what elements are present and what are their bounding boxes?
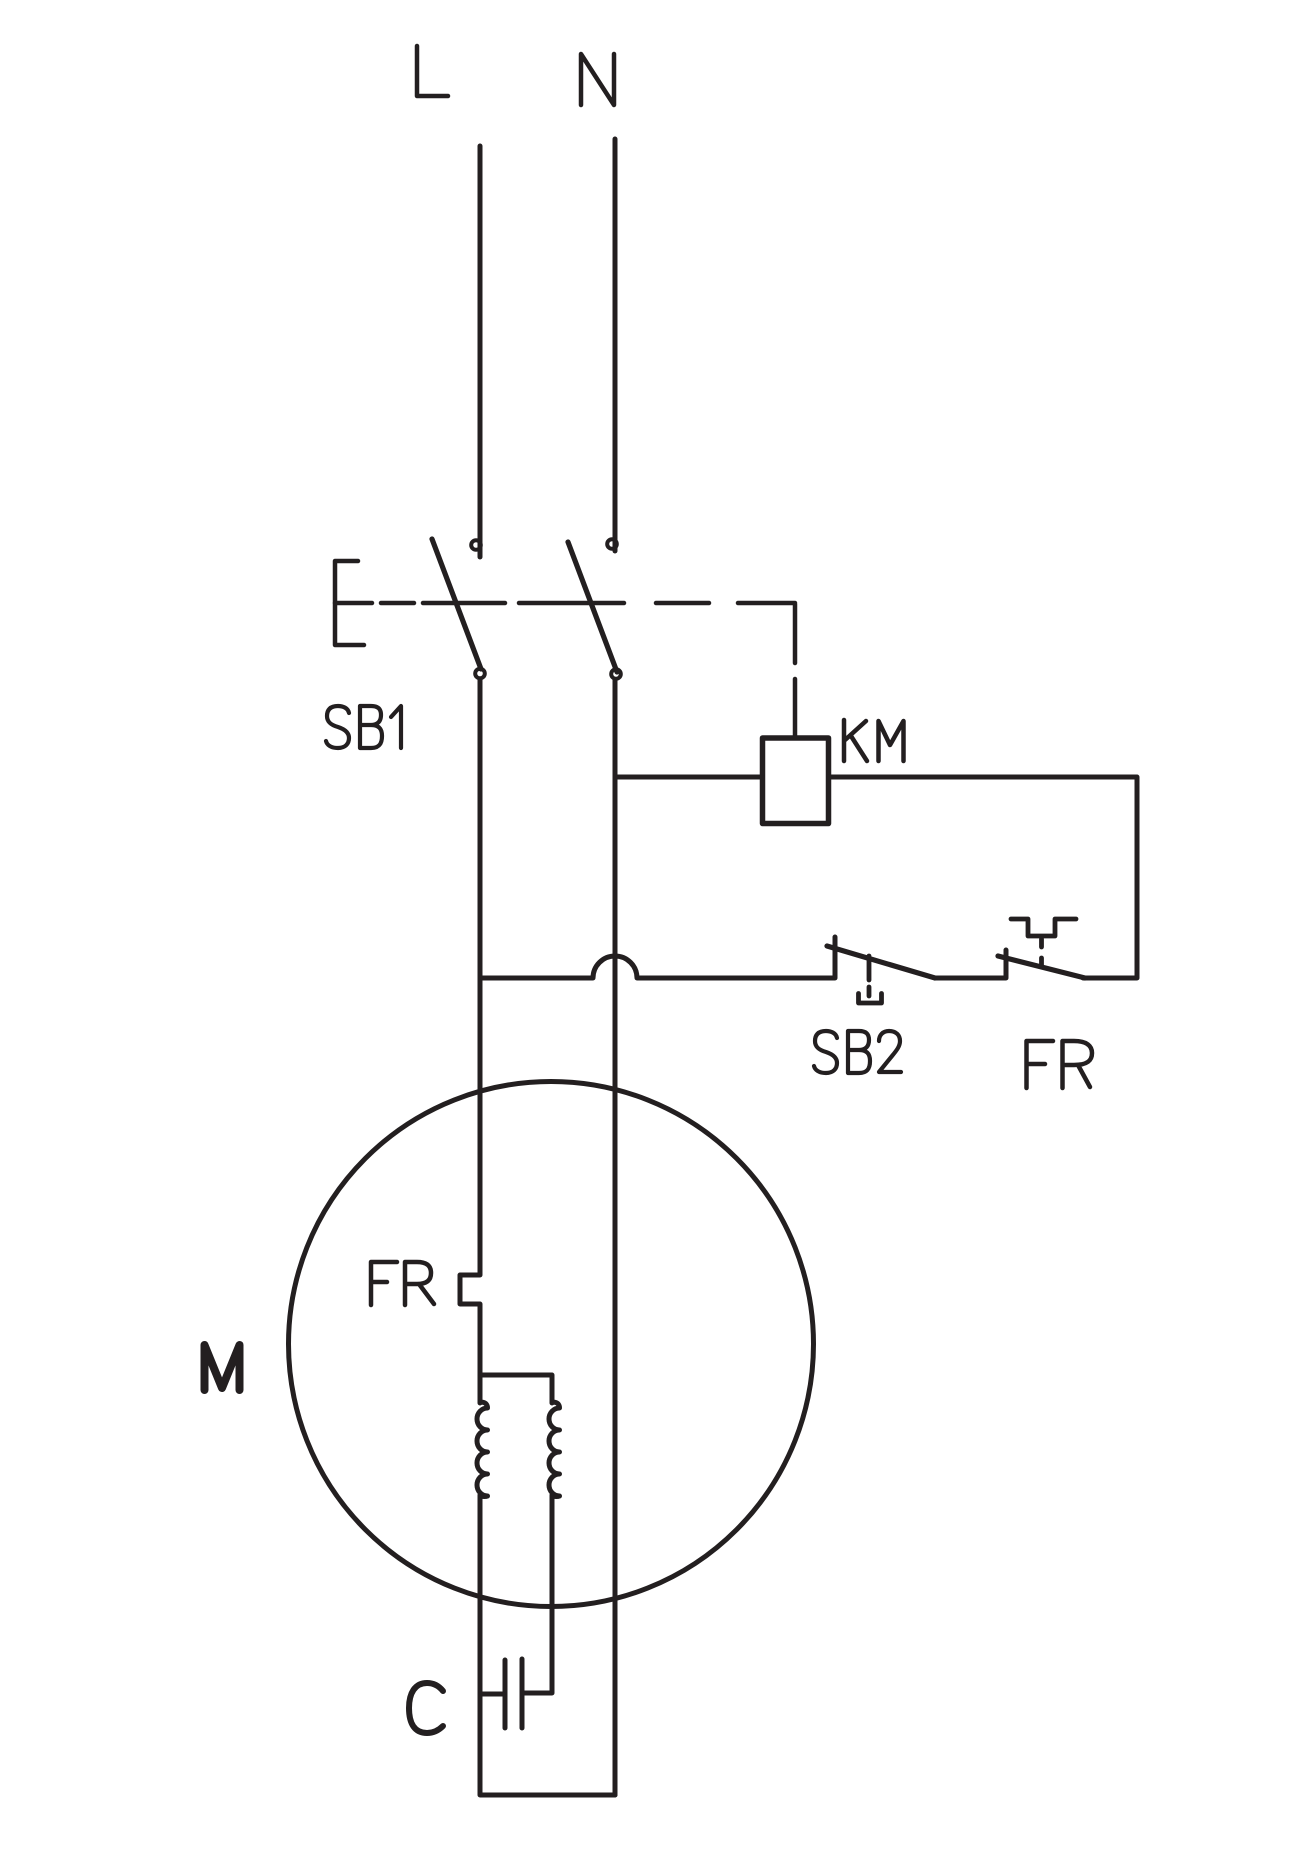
wire coil KM right terminal to riser and down to FR contact (829, 777, 1137, 978)
label SB1 (326, 706, 401, 748)
net label L (417, 46, 448, 96)
wire N to coil KM left terminal (616, 775, 762, 780)
wire capacitor to main branch (480, 1692, 503, 1697)
contact KM main pole 2 moving terminal (611, 669, 621, 679)
start winding coil (549, 1402, 560, 1497)
wire N neutral lower drop (613, 680, 618, 1795)
motor circle M (289, 1082, 814, 1607)
label SB2 (814, 1031, 901, 1073)
relay contact FR blade (998, 956, 1085, 978)
wire control line from L junction with crossover hump at N (480, 937, 835, 978)
label C (capacitor) (409, 1683, 443, 1733)
label FR (control contact) (1027, 1041, 1093, 1088)
mechanical linkage dashed line (335, 603, 795, 737)
contact KM main pole 1 moving terminal (475, 669, 485, 679)
label FR (heater in motor branch) (371, 1262, 434, 1305)
main winding coil (477, 1402, 487, 1497)
wire main winding to bottom and across to N (480, 1495, 615, 1795)
pushbutton SB2 blade (827, 946, 935, 978)
capacitor C plates (505, 1659, 522, 1728)
contact KM main pole 1 fixed terminal (471, 540, 481, 550)
pushbutton SB2 actuator linkage and head (859, 956, 882, 1003)
wire junction to start winding branch (480, 1375, 552, 1403)
wire start winding down to capacitor (524, 1495, 552, 1693)
wire N neutral drop (613, 139, 618, 551)
label KM (844, 720, 904, 761)
wire L lower drop with FR heater jog (460, 679, 480, 1403)
net label N (581, 54, 614, 105)
wire SB2 to FR contact (935, 950, 1006, 978)
label M (motor) (205, 1345, 240, 1390)
contact KM main pole 2 fixed terminal (607, 539, 617, 549)
contact KM main pole 2 blade (568, 542, 617, 672)
actuator bracket of switch SB1 (335, 561, 364, 645)
relay FR thermal element symbol (1011, 919, 1076, 966)
coil KM (contactor coil box) (763, 738, 829, 824)
wire L phase drop (478, 146, 483, 557)
contact KM main pole 1 blade (432, 539, 481, 669)
